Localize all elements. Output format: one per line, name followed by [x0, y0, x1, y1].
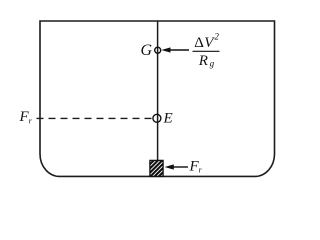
svg-text:E: E: [163, 111, 173, 127]
svg-text:G: G: [141, 42, 153, 59]
svg-text:R: R: [198, 53, 208, 69]
svg-text:2: 2: [214, 32, 219, 42]
svg-text:Δ: Δ: [194, 35, 204, 51]
svg-text:Fr: Fr: [189, 158, 203, 174]
svg-text:Fr: Fr: [19, 109, 33, 125]
svg-text:g: g: [210, 59, 215, 69]
